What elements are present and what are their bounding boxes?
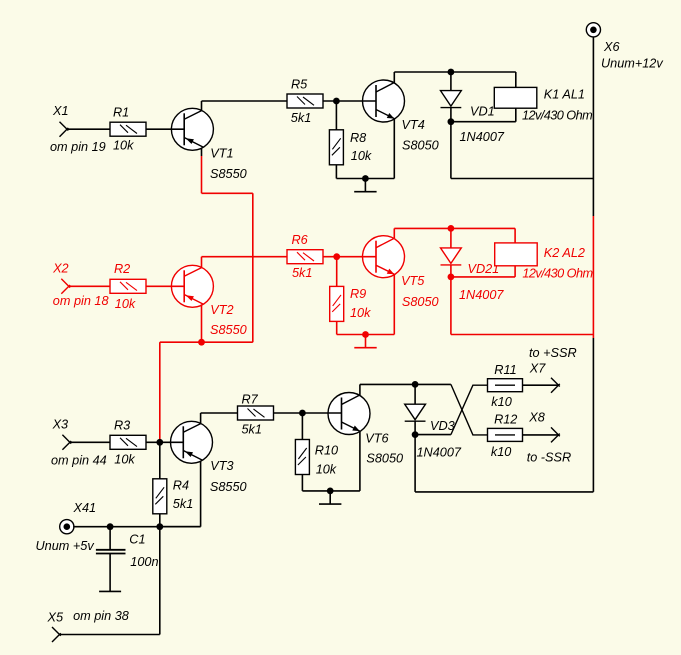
- resistor R11: [488, 379, 523, 392]
- wire +12v rail vertical lower (black): [592, 338, 594, 492]
- svg-text:to +SSR: to +SSR: [529, 346, 577, 360]
- wire R2 to VT2 base: [146, 285, 184, 287]
- wire VD1 cathode down: [450, 122, 452, 179]
- svg-text:S8550: S8550: [210, 480, 247, 494]
- wire VD3 cathode down: [414, 435, 416, 492]
- wire junction to R4: [159, 442, 161, 479]
- node R4/X5 junction: [156, 523, 163, 530]
- wire VT4 emitter riser: [393, 119, 395, 179]
- wire ground rail R8 to VT4 emitter: [336, 178, 394, 180]
- wire R1 to VT1 base: [146, 128, 184, 130]
- svg-text:10k: 10k: [316, 462, 337, 476]
- svg-text:5k1: 5k1: [291, 111, 311, 125]
- wire VT4 collector riser: [393, 72, 395, 83]
- node VT2 emitter junction: [198, 339, 205, 346]
- svg-text:R7: R7: [242, 392, 259, 406]
- svg-text:R9: R9: [350, 287, 366, 301]
- wire X5 riser: [159, 527, 161, 635]
- svg-text:Unum +5v: Unum +5v: [36, 539, 95, 553]
- resistor R8: [329, 130, 343, 165]
- svg-text:5k1: 5k1: [242, 423, 262, 437]
- svg-text:VT4: VT4: [402, 118, 425, 132]
- wire K1 bottom to VD1 cathode: [451, 121, 516, 123]
- svg-text:12v/430 Ohm: 12v/430 Ohm: [522, 109, 592, 123]
- node R6/R9 junction: [333, 253, 340, 260]
- wire VT3 collector rail to R7: [201, 412, 237, 414]
- node VD21 anode junction: [448, 225, 455, 232]
- svg-text:om pin 44: om pin 44: [51, 454, 107, 468]
- wire VD21 anode lead: [450, 228, 452, 248]
- svg-text:R5: R5: [291, 78, 308, 92]
- svg-text:10k: 10k: [113, 139, 134, 153]
- wire R6 to VT5 base: [323, 256, 376, 258]
- wire VD21 cathode down: [450, 277, 452, 335]
- svg-text:R1: R1: [113, 106, 129, 120]
- svg-text:10k: 10k: [114, 453, 135, 467]
- wire crossing top horizontal: [450, 383, 452, 385]
- svg-text:K1 AL1: K1 AL1: [544, 88, 585, 102]
- svg-text:VT6: VT6: [365, 432, 389, 446]
- connector X7 arrow: [551, 378, 560, 393]
- svg-text:VT3: VT3: [210, 459, 233, 473]
- node VD1 cathode junction: [448, 118, 455, 125]
- svg-text:X7: X7: [529, 362, 546, 376]
- transistor VT4: [363, 80, 405, 122]
- diode VD21: [441, 248, 462, 265]
- wire +12v rail vertical middle (red): [592, 216, 594, 338]
- svg-text:X41: X41: [73, 501, 97, 515]
- svg-text:R3: R3: [114, 418, 130, 432]
- terminal X6: [586, 23, 600, 37]
- capacitor C1: [109, 527, 111, 550]
- svg-text:k10: k10: [491, 395, 511, 409]
- svg-text:X2: X2: [52, 262, 69, 276]
- svg-text:S8050: S8050: [402, 295, 439, 309]
- node ground junction bottom: [327, 488, 334, 495]
- wire R8 to ground rail: [335, 165, 337, 179]
- relay K2 coil: [495, 243, 538, 266]
- svg-text:10k: 10k: [350, 306, 371, 320]
- svg-text:K2 AL2: K2 AL2: [544, 246, 585, 260]
- resistor R2: [110, 279, 146, 293]
- transistor VT5: [363, 236, 405, 278]
- svg-text:100n: 100n: [130, 555, 158, 569]
- svg-text:S8050: S8050: [402, 138, 439, 152]
- wire VT5 emitter riser: [393, 274, 395, 334]
- wire VT2 collector riser: [201, 257, 203, 268]
- svg-text:Unum+12v: Unum+12v: [601, 57, 663, 71]
- wire K1 top pin: [515, 72, 517, 87]
- svg-text:X3: X3: [52, 418, 69, 432]
- node VD3 anode junction: [412, 381, 419, 388]
- node ground junction mid: [362, 331, 369, 338]
- node VD21 cathode junction: [448, 274, 455, 281]
- resistor R10: [295, 440, 309, 475]
- wire VT6 collector riser: [359, 384, 361, 395]
- wire X2 to R2: [69, 285, 110, 287]
- ground symbol top: [354, 179, 376, 192]
- wire VT4 collector rail to K1: [394, 71, 516, 73]
- wire VT3 emitter to bottom rail: [160, 526, 201, 528]
- svg-text:R11: R11: [494, 363, 516, 377]
- wire VT2 collector rail to R6: [202, 256, 288, 258]
- svg-text:X1: X1: [52, 104, 69, 118]
- wire ground rail R9 to VT5 emitter: [337, 334, 395, 336]
- transistor VT6: [328, 393, 370, 435]
- wire VD3 cathode lead: [414, 421, 416, 434]
- wire R4 to bottom rail: [159, 514, 161, 527]
- wire VT1 collector riser: [201, 101, 203, 110]
- wire VT1 collector rail to R5: [202, 100, 288, 102]
- svg-text:R10: R10: [315, 443, 338, 457]
- wire to +12v rail mid: [451, 334, 594, 336]
- wire VT1 emitter stub: [201, 148, 203, 156]
- resistor R7: [238, 406, 274, 420]
- wire VT3 collector riser: [200, 413, 202, 423]
- resistor R9: [330, 286, 344, 321]
- transistor VT3: [171, 421, 213, 463]
- diode VD3: [405, 404, 426, 421]
- wire red vertical down to R3 node: [159, 342, 161, 442]
- wire VD3 anode lead: [414, 384, 416, 404]
- resistor R1: [110, 122, 146, 136]
- node R5/R8 junction: [333, 98, 340, 105]
- svg-text:R8: R8: [350, 131, 366, 145]
- wire K2 top pin: [514, 228, 516, 243]
- svg-text:1N4007: 1N4007: [417, 446, 462, 460]
- wire R10 to ground rail: [301, 475, 303, 491]
- connector X5: [52, 627, 61, 642]
- wire VD21 cathode lead: [450, 265, 452, 277]
- connector X8 arrow: [551, 427, 560, 442]
- wire R7 to VT6 base: [274, 412, 342, 414]
- connector X2: [61, 279, 70, 294]
- node VD1 anode junction: [448, 69, 455, 76]
- svg-text:VD1: VD1: [470, 105, 495, 119]
- wire K2 bottom to VD21 cathode: [451, 276, 515, 278]
- transistor VT2: [171, 265, 213, 307]
- svg-text:X8: X8: [528, 411, 545, 425]
- wire R9 to ground rail: [336, 321, 338, 334]
- node VD3 cathode junction: [412, 431, 419, 438]
- node R7/R10 junction: [299, 410, 306, 417]
- wire R3 to VT3 base: [146, 441, 184, 443]
- svg-text:om pin 18: om pin 18: [53, 294, 109, 308]
- svg-text:X6: X6: [603, 40, 620, 54]
- svg-text:5k1: 5k1: [292, 266, 312, 280]
- wire junction to R9: [336, 257, 338, 287]
- svg-text:R4: R4: [173, 479, 189, 493]
- svg-text:1N4007: 1N4007: [459, 288, 504, 302]
- wire ground rail R10 to VT6 emitter: [302, 490, 360, 492]
- wire VT6 collector rail: [360, 383, 451, 385]
- wire K2 bottom pin: [514, 266, 516, 277]
- resistor R5: [287, 94, 323, 108]
- wire bottom to +12v rail: [415, 491, 593, 493]
- wire VT3 emitter riser down: [200, 461, 202, 527]
- wire VT6 emitter riser: [359, 431, 361, 491]
- wire emitter rail horizontal: [160, 341, 253, 343]
- wire VD1 cathode lead: [450, 108, 452, 122]
- wire VT5 collector rail to K2: [394, 227, 515, 229]
- terminal X41: [60, 520, 74, 534]
- svg-text:VD3: VD3: [430, 419, 455, 433]
- svg-text:R6: R6: [292, 233, 309, 247]
- wire junction to R10: [301, 413, 303, 440]
- wire R11 to X7: [523, 384, 559, 386]
- svg-text:C1: C1: [129, 533, 145, 547]
- relay K1 coil: [494, 87, 537, 108]
- resistor R4: [153, 479, 167, 514]
- svg-text:12v/430 Ohm: 12v/430 Ohm: [522, 266, 592, 280]
- svg-text:om pin 19: om pin 19: [50, 140, 106, 154]
- wire X5 horizontal: [60, 634, 160, 636]
- wire X41 to rail: [73, 526, 200, 528]
- wire +12v rail vertical upper (black): [592, 37, 594, 216]
- svg-text:k10: k10: [491, 445, 511, 459]
- wire crossing diagonal down to R12: [451, 384, 488, 435]
- wire K1 bottom pin: [515, 108, 517, 122]
- svg-text:S8050: S8050: [366, 451, 403, 465]
- wire VT1 emitter red drop: [201, 156, 203, 193]
- ground symbol bottom: [319, 491, 341, 504]
- wire red jog right: [202, 192, 253, 194]
- svg-text:om pin 38: om pin 38: [73, 609, 129, 623]
- wire R5 to VT4 base: [323, 100, 376, 102]
- svg-text:R2: R2: [114, 262, 130, 276]
- connector X3: [62, 435, 71, 450]
- svg-text:10k: 10k: [351, 149, 372, 163]
- wire crossing bottom horizontal: [415, 434, 451, 436]
- ground symbol mid: [354, 335, 376, 348]
- transistor VT1: [171, 108, 213, 150]
- svg-text:5k1: 5k1: [173, 497, 193, 511]
- svg-text:VT5: VT5: [401, 274, 425, 288]
- wire X1 to R1: [67, 128, 92, 130]
- wire X3 to R3: [70, 441, 110, 443]
- wire crossing diagonal up to R11: [451, 385, 488, 434]
- svg-text:1N4007: 1N4007: [460, 130, 505, 144]
- node ground junction: [362, 175, 369, 182]
- connector X1: [60, 122, 69, 137]
- node R3/R4 junction: [156, 439, 163, 446]
- wire red vertical to emitter rail: [252, 193, 254, 342]
- diode VD1: [441, 91, 462, 108]
- wire VD1 anode lead: [450, 72, 452, 91]
- wire junction to R8: [335, 101, 337, 130]
- svg-text:to -SSR: to -SSR: [527, 450, 571, 464]
- node C1 junction: [107, 523, 114, 530]
- wire R12 to X8: [523, 434, 559, 436]
- svg-text:S8550: S8550: [210, 167, 247, 181]
- resistor R6: [287, 250, 323, 264]
- resistor R3: [110, 435, 146, 449]
- svg-text:VT1: VT1: [210, 146, 233, 160]
- svg-text:X5: X5: [47, 610, 64, 624]
- wire VT5 collector riser: [393, 228, 395, 238]
- wire VT2 emitter riser down: [201, 304, 203, 342]
- resistor R12: [488, 428, 523, 441]
- svg-text:R12: R12: [494, 412, 517, 426]
- svg-text:VT2: VT2: [210, 303, 233, 317]
- wire to +12v rail: [451, 178, 594, 180]
- svg-text:S8550: S8550: [210, 323, 247, 337]
- svg-text:10k: 10k: [115, 297, 136, 311]
